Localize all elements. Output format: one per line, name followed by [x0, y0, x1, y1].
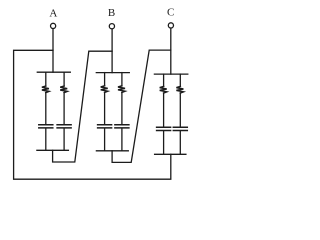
terminal A — [51, 23, 56, 28]
wire: phase B left branch middle — [104, 92, 106, 124]
capacitor, phase C left branch — [157, 127, 171, 130]
resistor (nonlinear), phase B right branch — [118, 86, 125, 93]
wire: phase C left branch upper — [163, 74, 165, 86]
wire: phase B right branch middle — [121, 92, 123, 124]
capacitor, phase B left branch — [98, 125, 112, 128]
wire: phase C right branch upper — [179, 74, 181, 86]
resistor (nonlinear), phase A left branch — [42, 86, 49, 93]
wire: phase C bottom bus bar — [155, 153, 186, 155]
wire: phase B bottom to phase C top (delta link) — [112, 50, 171, 162]
terminal B — [109, 24, 114, 29]
wire: phase A lead from terminal to top bus — [52, 29, 54, 72]
wire: phase B right branch upper — [121, 73, 123, 86]
wire: phase A right branch upper — [63, 72, 65, 86]
wire: phase B bottom bus bar — [96, 150, 128, 152]
wire: phase A bottom bus bar — [37, 149, 69, 151]
wire: phase A left branch upper — [45, 72, 47, 86]
wire: phase A left branch lower — [45, 129, 47, 151]
wire: phase C right branch middle — [179, 93, 181, 127]
wire: phase C left branch middle — [163, 93, 165, 127]
wire: phase A right branch lower — [63, 129, 65, 151]
resistor (nonlinear), phase A right branch — [60, 86, 67, 93]
wire: phase B right branch lower — [121, 129, 123, 151]
svg-text:B: B — [108, 7, 115, 19]
resistor (nonlinear), phase B left branch — [101, 86, 108, 93]
capacitor, phase A left branch — [39, 125, 53, 128]
wire: phase A left branch middle — [45, 93, 47, 125]
wire: phase C right branch lower — [179, 131, 181, 154]
wire: phase C lead from terminal to top bus — [170, 28, 172, 74]
resistor (nonlinear), phase C left branch — [160, 86, 167, 93]
wire: phase B top bus bar — [96, 72, 129, 74]
wire: phase B lead from terminal to top bus — [111, 29, 113, 73]
wire: phase A top bus bar — [37, 71, 70, 73]
wire: phase A right branch middle — [63, 93, 65, 125]
resistor (nonlinear), phase C right branch — [176, 86, 183, 93]
wire: phase B left branch upper — [104, 73, 106, 86]
svg-text:C: C — [167, 6, 174, 18]
capacitor, phase B right branch — [115, 125, 129, 128]
wire: phase C bottom to phase A top (delta return loop) — [14, 50, 171, 179]
capacitor, phase A right branch — [57, 125, 71, 128]
wire: phase B left branch lower — [104, 129, 106, 151]
wire: phase C left branch lower — [163, 131, 165, 154]
wire: phase A bottom to phase B top (delta link) — [53, 51, 113, 162]
terminal C — [168, 23, 173, 28]
svg-text:A: A — [49, 8, 57, 20]
wire: phase C top bus bar — [154, 73, 187, 75]
capacitor, phase C right branch — [173, 127, 187, 130]
